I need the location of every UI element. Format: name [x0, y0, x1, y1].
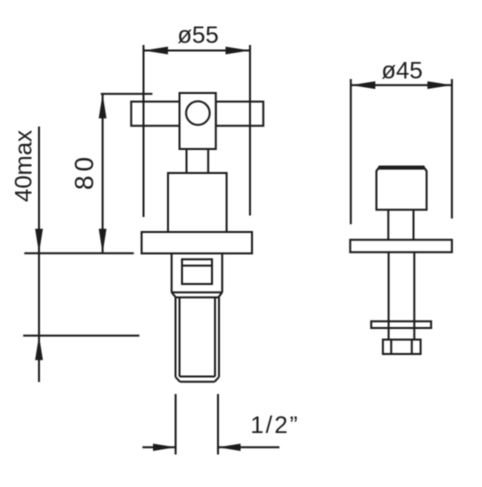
extension line 1/2 right	[217, 394, 219, 455]
arrowhead 80 bottom	[99, 229, 107, 254]
extension line 1/2 left	[175, 394, 177, 455]
bonnet below flange	[172, 253, 223, 297]
extension line ø55 right	[249, 45, 251, 216]
tail bottom edge	[180, 381, 215, 383]
broach inner line	[182, 265, 212, 267]
tail bottom chamfer right	[215, 377, 220, 382]
arrowhead 1/2 right	[218, 444, 241, 451]
knob side view	[376, 167, 426, 210]
valve body	[168, 173, 227, 232]
arrowhead left ø55	[144, 47, 169, 55]
knob top thick edge	[379, 166, 425, 170]
svg-text:1/2”: 1/2”	[250, 412, 299, 439]
extension line ø55 left	[143, 45, 145, 217]
arrowhead ø45 right	[427, 81, 452, 89]
thread crest line left	[179, 297, 181, 376]
dimension line 80	[102, 94, 104, 253]
reference line wall depth	[23, 335, 139, 337]
dimension line ø45	[351, 84, 452, 86]
mounting flange side	[350, 240, 452, 252]
arrowhead 40max down	[35, 229, 43, 254]
threaded tail outer right	[218, 297, 220, 377]
arrowhead right ø55	[226, 47, 251, 55]
handle hub	[180, 93, 216, 149]
extension line ø45 left	[350, 79, 352, 224]
thread crest line right	[214, 297, 216, 376]
dimension line 40max middle	[38, 253, 40, 335]
dimension tail 40max bottom	[38, 336, 40, 382]
dimension line ø55	[144, 50, 251, 52]
leader tail 1/2 left	[142, 446, 175, 448]
svg-text:40max: 40max	[11, 130, 38, 202]
reference line bottom of flange	[24, 252, 134, 254]
svg-text:80: 80	[69, 153, 99, 190]
dimension line 40max	[38, 127, 40, 254]
handle stem left line	[186, 149, 188, 173]
arrowhead 40max up	[35, 336, 43, 361]
svg-text:ø45: ø45	[381, 58, 422, 85]
hex nut facet left	[390, 340, 392, 354]
lower stem right line	[413, 252, 415, 339]
knob stem right line	[413, 210, 415, 240]
mounting flange front	[142, 232, 252, 253]
handle bar left arm	[131, 102, 179, 126]
arrowhead 1/2 left	[153, 444, 176, 451]
thread end inner line	[180, 376, 216, 378]
washer	[371, 321, 431, 328]
reference line 80 top	[101, 93, 153, 95]
leader tail 1/2 right	[218, 446, 279, 448]
threaded tail outer left	[175, 297, 177, 377]
arrowhead ø45 left	[351, 81, 376, 89]
square broach window	[182, 259, 212, 284]
hex nut	[383, 340, 421, 354]
extension line ø45 right	[451, 79, 453, 219]
handle bar right arm	[216, 102, 263, 126]
knob stem left line	[387, 210, 389, 240]
hub screw circle	[186, 101, 210, 125]
tail bottom chamfer left	[176, 377, 181, 382]
lower stem left line	[388, 252, 390, 339]
handle stem right line	[207, 149, 209, 173]
hex nut facet right	[411, 340, 413, 354]
arrowhead 80 top	[99, 94, 107, 119]
svg-text:ø55: ø55	[177, 22, 218, 49]
